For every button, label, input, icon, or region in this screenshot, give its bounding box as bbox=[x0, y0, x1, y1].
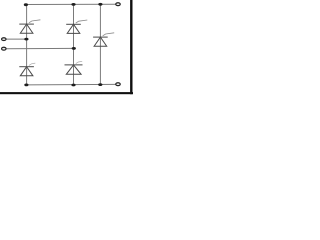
thyristor Q2 (leg 2 top) bbox=[66, 20, 87, 33]
background bbox=[0, 0, 133, 95]
wire phase input 2 bbox=[6, 47, 73, 49]
node dot leg3/top rail bbox=[98, 3, 102, 6]
terminal AC phase 2 bbox=[2, 47, 6, 50]
wire top rail bbox=[26, 3, 116, 5]
terminal DC- (bottom right) bbox=[116, 83, 120, 86]
node dot leg3/bottom rail bbox=[98, 83, 102, 86]
wire leg 2 bbox=[73, 4, 75, 85]
node dot leg2/bottom rail bbox=[71, 84, 75, 87]
wire phase input 1 bbox=[6, 38, 26, 40]
node dot phase2/leg2 bbox=[72, 47, 76, 50]
node dot phase1/leg1 bbox=[24, 38, 28, 41]
border bottom edge bbox=[0, 92, 133, 94]
thyristor Q1 (leg 1 top) bbox=[19, 20, 40, 33]
node dot leg2/top rail bbox=[71, 3, 75, 6]
wire leg 1 bbox=[26, 5, 28, 85]
terminal DC+ (top right) bbox=[116, 3, 120, 6]
thyristor Q5 (leg 2 bottom) bbox=[65, 61, 83, 74]
node dot leg1/top rail bbox=[24, 3, 28, 6]
wire leg 3 bbox=[99, 4, 101, 84]
thyristor Q3 (leg 3) bbox=[93, 33, 114, 46]
thyristor Q4 (leg 1 bottom) bbox=[19, 63, 35, 76]
terminal AC phase 1 bbox=[2, 38, 6, 41]
node dot leg1/bottom rail bbox=[24, 84, 28, 87]
wire bottom rail bbox=[26, 83, 116, 86]
border right edge bbox=[130, 0, 132, 94]
